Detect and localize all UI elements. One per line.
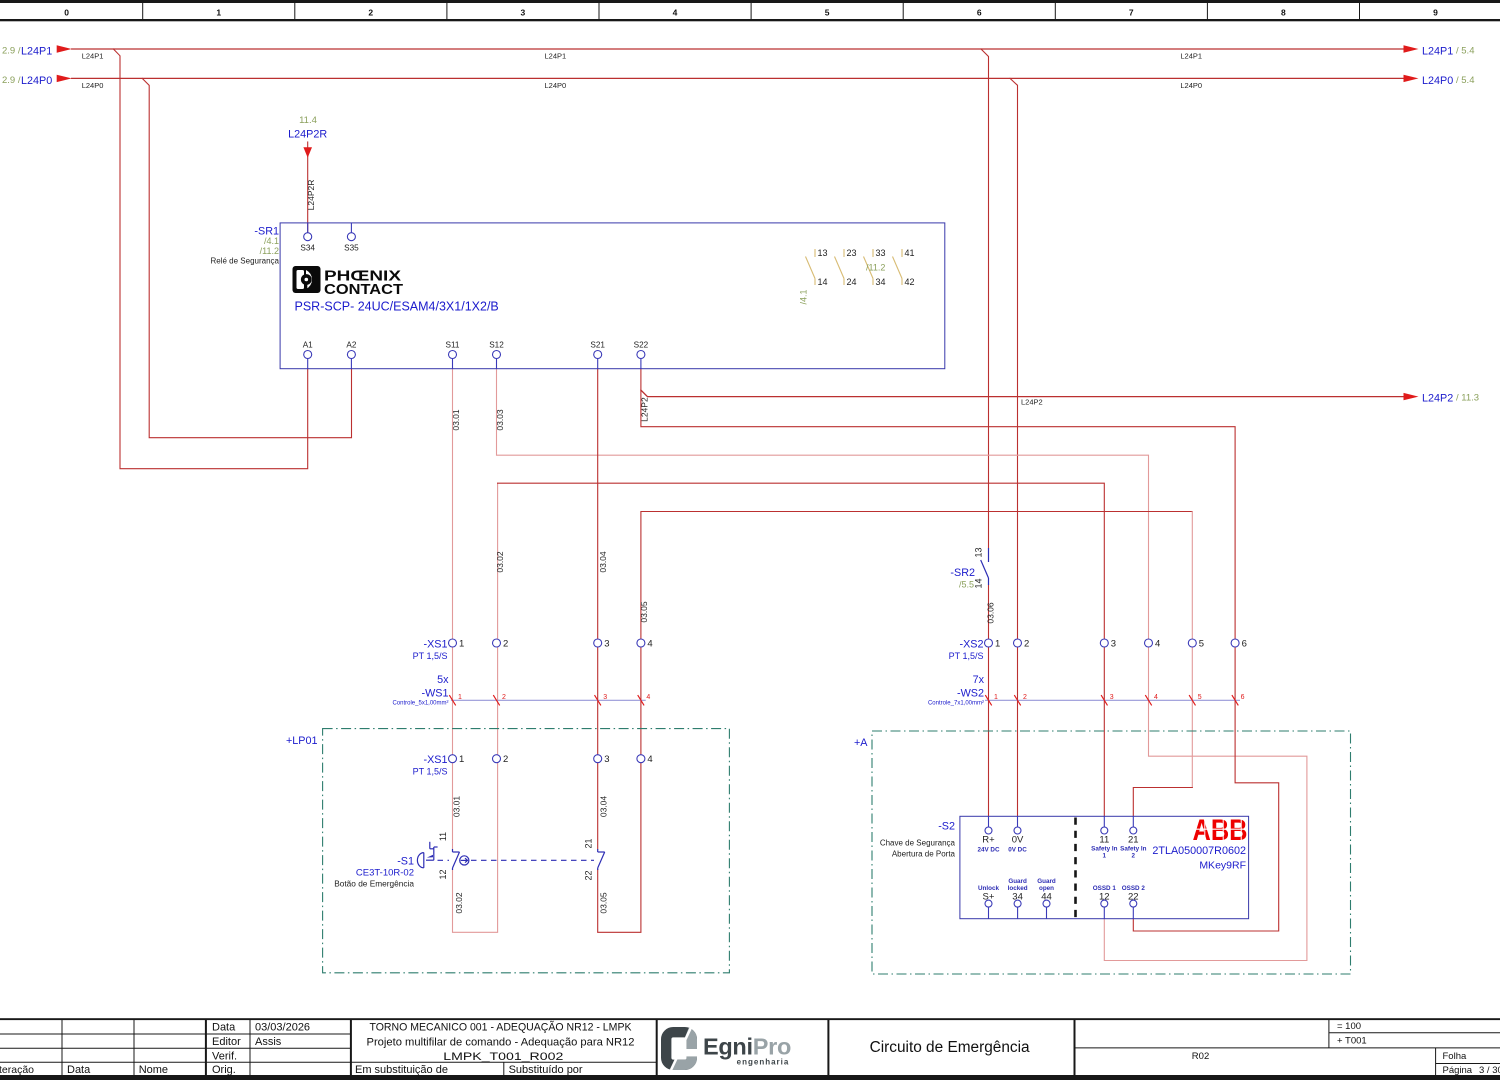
svg-text:MKey9RF: MKey9RF (1199, 860, 1246, 872)
svg-text:24V DC: 24V DC (977, 847, 1000, 854)
svg-text:3: 3 (521, 8, 526, 18)
svg-text:41: 41 (905, 248, 915, 258)
svg-text:03.06: 03.06 (986, 602, 996, 624)
EgniPro logo (666, 1028, 791, 1071)
svg-text:03.01: 03.01 (451, 409, 461, 431)
svg-text:PT 1,5/S: PT 1,5/S (949, 651, 984, 661)
svg-text:/ 5.4: / 5.4 (1456, 75, 1475, 86)
svg-text:7: 7 (1129, 8, 1134, 18)
svg-text:L24P2R: L24P2R (288, 129, 327, 141)
Phoenix Contact logo icon (293, 266, 321, 293)
svg-text:A1: A1 (303, 340, 313, 349)
svg-text:8: 8 (1281, 8, 1286, 18)
svg-text:1: 1 (216, 8, 221, 18)
svg-text:23: 23 (847, 248, 857, 258)
svg-text:+A: +A (854, 737, 868, 749)
svg-text:-SR2: -SR2 (950, 567, 975, 579)
SR1 internal contact 23-24 (835, 249, 845, 285)
svg-text:teração: teração (0, 1064, 34, 1076)
svg-text:1: 1 (995, 639, 1000, 650)
wire 03.02 S1 contact 12 to S2 Safety In 1 (453, 483, 498, 932)
svg-text:6: 6 (1242, 639, 1247, 650)
SR1 pin circles (304, 233, 645, 359)
svg-text:2TLA050007R0602: 2TLA050007R0602 (1152, 845, 1246, 857)
svg-text:/ 5.4: / 5.4 (1456, 46, 1475, 57)
svg-text:Controle_7x1,00mm²: Controle_7x1,00mm² (928, 701, 984, 707)
svg-text:2: 2 (503, 639, 508, 650)
svg-text:Controle_5x1,00mm²: Controle_5x1,00mm² (392, 701, 448, 707)
svg-text:/11.2: /11.2 (260, 246, 279, 256)
svg-text:Assis: Assis (255, 1036, 282, 1048)
svg-text:Safety In: Safety In (1091, 846, 1117, 853)
bottom black band (0, 1075, 1500, 1080)
wire 03.05 S1 contact 22 to S2 Safety In 2 (598, 512, 1193, 933)
svg-text:4: 4 (646, 694, 650, 701)
wire S22 to S2 OSSD2 / L24P2 (641, 369, 1279, 931)
svg-text:Página: Página (1443, 1065, 1473, 1076)
svg-text:-WS1: -WS1 (422, 688, 449, 700)
arrow L24P1 left (57, 45, 72, 52)
header column dividers (143, 3, 1360, 19)
svg-text:L24P2R: L24P2R (306, 180, 316, 211)
svg-text:3: 3 (1111, 639, 1116, 650)
arrow L24P0 left (57, 75, 72, 82)
safety switch S2 box (960, 816, 1249, 918)
svg-text:34: 34 (876, 277, 886, 287)
svg-text:14: 14 (974, 578, 984, 588)
wire L24P1 rail (72, 48, 1403, 50)
svg-text:11: 11 (1099, 835, 1109, 846)
svg-text:22: 22 (1128, 892, 1139, 903)
svg-text:-XS1: -XS1 (423, 754, 447, 766)
svg-text:3: 3 (604, 639, 609, 650)
svg-text:Chave de Segurança: Chave de Segurança (880, 839, 956, 848)
svg-text:4: 4 (1154, 694, 1158, 701)
wire L24P1 branch to A1 coil (113, 49, 307, 469)
svg-text:L24P0: L24P0 (21, 75, 52, 87)
svg-text:L24P1: L24P1 (21, 46, 52, 58)
svg-text:3: 3 (603, 694, 607, 701)
wire L24P0 rail (72, 77, 1403, 79)
svg-text:L24P0: L24P0 (1180, 81, 1202, 90)
svg-text:33: 33 (876, 248, 886, 258)
cable WS1 line (451, 699, 646, 701)
svg-text:7x: 7x (973, 674, 985, 686)
S1 release-by-turn circle symbol (460, 856, 469, 865)
svg-text:S+: S+ (983, 892, 995, 903)
svg-text:S21: S21 (590, 340, 605, 349)
terminal strip XS2 row (985, 639, 1240, 647)
svg-text:S22: S22 (634, 340, 649, 349)
svg-text:22: 22 (584, 870, 594, 880)
svg-text:2: 2 (503, 754, 508, 765)
svg-text:-S2: -S2 (938, 821, 955, 833)
svg-text:Abertura de Porta: Abertura de Porta (892, 850, 956, 859)
svg-text:2: 2 (1023, 694, 1027, 701)
ABB logo (1192, 814, 1248, 847)
svg-text:-WS2: -WS2 (957, 688, 984, 700)
arrow L24P1 right (1404, 45, 1419, 52)
title block top border (0, 1018, 1500, 1020)
svg-text:L24P0: L24P0 (545, 81, 567, 90)
svg-text:5: 5 (1199, 639, 1204, 650)
svg-text:+LP01: +LP01 (286, 735, 318, 747)
svg-text:R+: R+ (982, 835, 995, 846)
panel box +LP01 (323, 729, 730, 973)
svg-text:03.05: 03.05 (599, 892, 609, 914)
svg-text:PT 1,5/S: PT 1,5/S (413, 651, 448, 661)
svg-text:03.01: 03.01 (452, 796, 462, 818)
svg-text:L24P0: L24P0 (1422, 75, 1453, 87)
svg-text:-XS1: -XS1 (423, 639, 447, 651)
SR1 internal contact 41-42 (893, 249, 903, 285)
FRAME_TOP (0, 0, 1500, 21)
svg-text:EgniPro: EgniPro (703, 1034, 791, 1060)
header underline (0, 19, 1500, 21)
svg-text:03/03/2026: 03/03/2026 (255, 1022, 310, 1034)
svg-text:03.04: 03.04 (598, 551, 608, 573)
svg-text:CE3T-10R-02: CE3T-10R-02 (356, 868, 414, 879)
svg-text:13: 13 (974, 547, 984, 557)
svg-text:Projeto multifilar de comando: Projeto multifilar de comando - Adequaçã… (367, 1037, 635, 1049)
top black band (0, 0, 1500, 3)
title block grid lines (0, 1019, 1500, 1075)
svg-text:34: 34 (1012, 892, 1023, 903)
emergency button S1 contact 11-12 (453, 849, 460, 870)
terminal strip XS1 upper row (449, 639, 645, 647)
svg-text:11: 11 (438, 832, 448, 841)
S2 pin stubs (989, 816, 1134, 918)
svg-text:S35: S35 (344, 244, 359, 253)
wire 03.02 upper run to XS2:3 (498, 483, 1105, 816)
svg-text:1: 1 (458, 694, 462, 701)
svg-text:Botão de Emergência: Botão de Emergência (334, 879, 414, 889)
wire 03.04 S21 to S1 contact 21 (597, 369, 599, 849)
svg-text:4: 4 (1155, 639, 1160, 650)
svg-text:11.4: 11.4 (299, 115, 317, 126)
relay contact SR2 13-14 (981, 548, 989, 585)
svg-text:6: 6 (977, 8, 982, 18)
svg-text:Data: Data (212, 1022, 236, 1034)
svg-text:2: 2 (502, 694, 506, 701)
svg-text:LMPK_T001_R002: LMPK_T001_R002 (443, 1051, 563, 1063)
wire L24P2 rail to sheet arrow (641, 390, 1403, 397)
svg-text:L24P2: L24P2 (1021, 398, 1043, 407)
SR1 pin stubs (308, 223, 641, 369)
arrow L24P2R down (303, 147, 312, 158)
wire L24P0 branch to A2 coil (142, 78, 351, 437)
svg-text:Verif.: Verif. (212, 1051, 237, 1063)
wire 03.06 SR2 14 to S2 R+ (988, 585, 990, 816)
cable WS2 line (985, 699, 1240, 701)
wire 03.03 S12 to S2 OSSD1 (497, 369, 1307, 961)
svg-text:L24P2: L24P2 (639, 397, 649, 422)
svg-text:03.02: 03.02 (454, 892, 464, 914)
svg-text:Em substituição de: Em substituição de (355, 1064, 448, 1076)
svg-text:2: 2 (1024, 639, 1029, 650)
S2 pin labels top (982, 835, 1138, 846)
FRAME_BOTTOM (0, 1018, 1500, 1080)
svg-text:CONTACT: CONTACT (324, 282, 403, 298)
svg-text:2.9 /: 2.9 / (2, 75, 21, 86)
title block thick verticals (205, 1019, 1076, 1075)
wire L24P1 branch to SR2 contact 13 (981, 49, 989, 548)
svg-text:14: 14 (818, 277, 828, 287)
svg-text:3: 3 (1110, 694, 1114, 701)
svg-text:03.02: 03.02 (495, 551, 505, 573)
svg-text:2: 2 (1132, 853, 1136, 860)
svg-text:Folha: Folha (1443, 1051, 1467, 1062)
svg-text:0: 0 (64, 8, 69, 18)
cable WS2 conductor slashes (985, 695, 1238, 705)
emergency button S1 contact 21-22 (598, 849, 605, 870)
svg-text:Guard: Guard (1008, 878, 1027, 885)
svg-text:S11: S11 (446, 340, 460, 349)
svg-text:L24P1: L24P1 (1422, 46, 1453, 58)
SR1 contact pin numbers (818, 248, 915, 287)
svg-text:24: 24 (847, 277, 857, 287)
header column numbers (64, 8, 1438, 18)
wire L24P0 branch to S2 0V (1010, 78, 1018, 816)
svg-text:/5.5: /5.5 (959, 580, 974, 590)
svg-text:R02: R02 (1192, 1051, 1209, 1062)
wire 03.05 drop to XS2:5 and Safety In 2 (1191, 512, 1193, 788)
S2 pin circles (985, 827, 1137, 907)
svg-text:S12: S12 (489, 340, 504, 349)
S1 mushroom actuator symbol (417, 842, 437, 868)
wire 03.01 S11 to S1 contact 11 (452, 369, 454, 849)
svg-text:4: 4 (647, 639, 652, 650)
svg-text:L24P2: L24P2 (1422, 393, 1453, 405)
panel box +A (872, 731, 1351, 974)
svg-text:3: 3 (604, 754, 609, 765)
svg-text:Orig.: Orig. (212, 1064, 236, 1076)
svg-text:5x: 5x (437, 674, 449, 686)
svg-text:6: 6 (1241, 694, 1245, 701)
svg-text:21: 21 (1128, 835, 1139, 846)
svg-text:5: 5 (825, 8, 830, 18)
svg-text:0V: 0V (1012, 835, 1024, 846)
terminal strip XS1 lower row (449, 755, 645, 763)
svg-text:Relé de Segurança: Relé de Segurança (211, 257, 280, 266)
arrow L24P0 right (1404, 75, 1419, 82)
svg-text:Guard: Guard (1037, 878, 1056, 885)
svg-text:PT 1,5/S: PT 1,5/S (413, 767, 448, 777)
svg-text:21: 21 (584, 838, 594, 848)
svg-text:Substituído por: Substituído por (509, 1064, 583, 1076)
svg-text:PSR-SCP- 24UC/ESAM4/3X1/1X2/B: PSR-SCP- 24UC/ESAM4/3X1/1X2/B (295, 300, 499, 314)
svg-text:L24P1: L24P1 (82, 52, 104, 61)
svg-text:/4.1: /4.1 (799, 289, 809, 304)
svg-text:03.03: 03.03 (495, 409, 505, 431)
svg-text:4: 4 (673, 8, 678, 18)
svg-text:03.04: 03.04 (599, 796, 609, 818)
svg-text:ABB: ABB (1193, 814, 1248, 847)
svg-text:3 / 30: 3 / 30 (1479, 1065, 1500, 1076)
svg-text:TORNO MECANICO 001 - ADEQUAÇÃO: TORNO MECANICO 001 - ADEQUAÇÃO NR12 - LM… (370, 1021, 632, 1034)
svg-text:= 100: = 100 (1337, 1021, 1361, 1032)
svg-text:0V DC: 0V DC (1008, 847, 1027, 854)
svg-text:1: 1 (459, 754, 464, 765)
Phoenix Contact logo text (324, 269, 403, 298)
S2 internal dashed divider (1074, 818, 1077, 918)
svg-text:9: 9 (1433, 8, 1438, 18)
svg-text:1: 1 (459, 639, 464, 650)
svg-text:2: 2 (368, 8, 373, 18)
svg-text:44: 44 (1041, 892, 1052, 903)
svg-text:/ 11.3: / 11.3 (1456, 393, 1479, 404)
SR1 internal contact 33-34 (864, 249, 874, 285)
svg-text:1: 1 (994, 694, 998, 701)
svg-text:2.9 /: 2.9 / (2, 46, 21, 57)
svg-text:5: 5 (1198, 694, 1202, 701)
svg-text:1: 1 (1103, 853, 1107, 860)
title block small texts left (0, 1022, 583, 1077)
svg-text:13: 13 (818, 248, 828, 258)
svg-text:Nome: Nome (139, 1064, 168, 1076)
svg-text:L24P0: L24P0 (82, 81, 104, 90)
svg-text:L24P1: L24P1 (545, 52, 567, 61)
svg-text:Editor: Editor (212, 1036, 241, 1048)
arrow L24P2 right (1404, 393, 1419, 400)
svg-text:S34: S34 (300, 244, 315, 253)
svg-text:Safety In: Safety In (1120, 846, 1146, 853)
svg-text:engenharia: engenharia (737, 1058, 790, 1067)
svg-text:03.05: 03.05 (639, 601, 649, 623)
svg-text:12: 12 (438, 869, 448, 879)
project title lines (367, 1021, 635, 1064)
SR1 internal contact 13-14 (806, 249, 816, 285)
svg-text:-S1: -S1 (397, 856, 414, 868)
S2 pin labels bottom (978, 878, 1145, 892)
cable WS1 conductor slashes (449, 695, 644, 705)
svg-text:4: 4 (647, 754, 652, 765)
svg-text:42: 42 (905, 277, 915, 287)
svg-text:/11.2: /11.2 (866, 263, 885, 273)
svg-text:Circuito de Emergência: Circuito de Emergência (870, 1039, 1030, 1056)
S1 mechanical linkage dashed (438, 859, 595, 861)
svg-text:+ T001: + T001 (1337, 1036, 1367, 1047)
svg-text:L24P1: L24P1 (1180, 52, 1202, 61)
svg-text:12: 12 (1099, 892, 1110, 903)
svg-text:A2: A2 (346, 340, 356, 349)
safety relay U-SR1 box (280, 223, 945, 369)
svg-text:Data: Data (67, 1064, 91, 1076)
wire L24P2R to S34 (307, 142, 309, 233)
svg-text:-XS2: -XS2 (959, 639, 983, 651)
right info cells (1192, 1021, 1500, 1076)
svg-text:/4.1: /4.1 (264, 236, 279, 246)
